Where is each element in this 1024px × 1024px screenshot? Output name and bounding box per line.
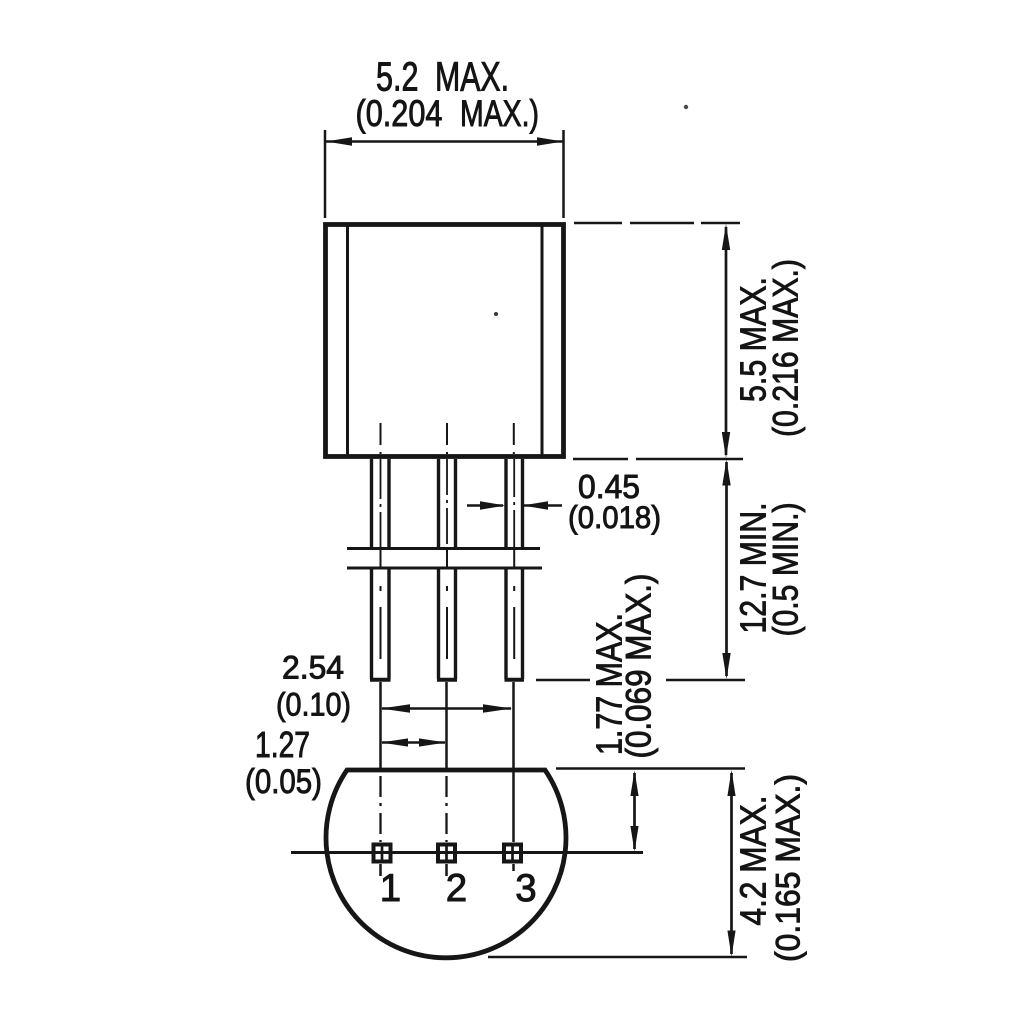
svg-text:(0.05): (0.05): [245, 763, 322, 801]
svg-text:(0.204: (0.204: [356, 92, 443, 134]
dim 5.5 bottom extension line: [573, 458, 743, 461]
pin centers horizontal line: [291, 851, 643, 854]
svg-text:2: 2: [446, 867, 467, 910]
svg-text:(0.216 MAX.): (0.216 MAX.): [767, 259, 806, 437]
dim 12.7 dimension line: [725, 462, 728, 676]
lead 2 bottom cap: [437, 678, 457, 682]
dim 1.77 up arrowhead: [630, 771, 638, 797]
dim 0.45 left leader: [467, 504, 503, 507]
flat edge extension line: [556, 767, 745, 770]
dim 4.2 down arrowhead: [727, 931, 735, 957]
dim 5.2 right extension line: [562, 130, 565, 218]
lead 2 lower centerline: [446, 586, 448, 664]
dim 12.7 down arrowhead: [722, 653, 730, 679]
lead 1 upper segment: [372, 459, 390, 548]
dim 1.27 left arrowhead: [381, 738, 408, 746]
lead break line upper: [347, 547, 540, 550]
lead 2 lower segment: [439, 569, 456, 679]
svg-text:3: 3: [515, 867, 536, 910]
lead 2 centerline across break: [446, 549, 448, 568]
lead 1 centerline tick below pad: [379, 864, 382, 876]
lead 1 extension line below cap: [379, 682, 382, 769]
dim 5.2 dimension line: [326, 140, 563, 143]
lead 3 centerline inside body: [513, 423, 515, 458]
lead break line lower: [347, 567, 542, 570]
dim 5.2 left arrowhead: [326, 137, 352, 145]
dim 1.27 dimension line: [382, 741, 445, 744]
dim 0.45 right leader: [524, 504, 562, 507]
lead 2 upper segment: [439, 459, 456, 548]
dim 4.2 dimension line: [730, 773, 733, 954]
bottom view body outline (D shape): [326, 770, 566, 958]
dim 2.54 dimension line: [382, 707, 511, 710]
package body outline (front view): [326, 225, 564, 457]
dim 0.45 right arrowhead: [523, 501, 549, 509]
dim 5.5 top extension line: [574, 222, 740, 225]
dim 5.2 left extension line: [324, 130, 327, 218]
dim 5.2 right arrowhead: [537, 137, 563, 145]
lead 1 lower segment: [372, 569, 390, 679]
lead 3 centerline across break: [513, 549, 515, 568]
scan speck top right: [684, 105, 688, 109]
bottom extension line: [488, 956, 747, 959]
svg-text:2.54: 2.54: [282, 650, 344, 686]
pad square pin 3 vertical centerline: [511, 845, 514, 861]
lead 2 centerline inside bottom view: [445, 776, 447, 842]
body left edge inner line: [346, 227, 349, 457]
dim 5.5 dimension line: [725, 227, 728, 455]
lead 3 extension line below cap: [512, 682, 515, 842]
lead 1 lower centerline: [380, 586, 382, 664]
pad square pin 1: [374, 845, 391, 862]
dim 4.2 up arrowhead: [727, 770, 735, 796]
svg-text:1.27: 1.27: [255, 724, 310, 765]
dim 12.7 up arrowhead: [722, 460, 730, 486]
scan speck in body: [494, 312, 498, 316]
lead 3 lower segment: [506, 569, 523, 679]
lead 3 bottom cap: [505, 678, 525, 682]
lead 1 centerline inside body: [380, 423, 382, 458]
dim 1.77 dimension line: [633, 773, 636, 849]
dim 0.45 left arrowhead: [480, 501, 506, 509]
lead 2 upper centerline: [446, 459, 448, 548]
lead 1 upper centerline: [380, 459, 382, 548]
lead 1 centerline across break: [380, 549, 382, 568]
pad square pin 2: [438, 845, 455, 862]
lead 2 centerline tick below pad: [445, 864, 448, 876]
dim 2.54 left arrowhead: [381, 704, 410, 712]
lead 1 bottom cap: [370, 678, 391, 682]
lead tip extension line left segment: [536, 679, 590, 682]
svg-text:(0.10): (0.10): [276, 687, 351, 723]
pad square pin 2 vertical centerline: [445, 845, 448, 861]
dim 5.5 up arrowhead: [722, 224, 730, 250]
lead 3 centerline tick below pad: [512, 864, 515, 871]
dim 1.27 right arrowhead: [419, 738, 446, 746]
lead 3 upper centerline: [513, 459, 515, 548]
svg-text:(0.165 MAX.): (0.165 MAX.): [770, 774, 808, 962]
lead 3 lower centerline: [513, 586, 515, 664]
pad square pin 1 vertical centerline: [381, 845, 384, 861]
pad square pin 3: [504, 845, 521, 862]
svg-text:MAX.): MAX.): [460, 92, 539, 134]
lead 3 upper segment: [506, 459, 523, 548]
body right edge inner line: [541, 227, 544, 457]
lead 2 centerline inside body: [446, 423, 448, 458]
dim 2.54 right arrowhead: [483, 704, 512, 712]
svg-text:1: 1: [380, 867, 401, 910]
lead tip extension line right segment: [666, 679, 745, 682]
svg-text:(0.069 MAX.): (0.069 MAX.): [620, 574, 659, 759]
svg-text:(0.018): (0.018): [568, 499, 661, 535]
lead 1 centerline inside bottom view: [379, 776, 381, 842]
dim 5.5 down arrowhead: [722, 432, 730, 458]
dim 1.77 down arrowhead: [630, 826, 638, 852]
svg-text:(0.5 MIN.): (0.5 MIN.): [767, 503, 806, 637]
svg-text:4.2 MAX.: 4.2 MAX.: [733, 796, 774, 926]
lead 2 extension line below cap: [445, 682, 448, 769]
